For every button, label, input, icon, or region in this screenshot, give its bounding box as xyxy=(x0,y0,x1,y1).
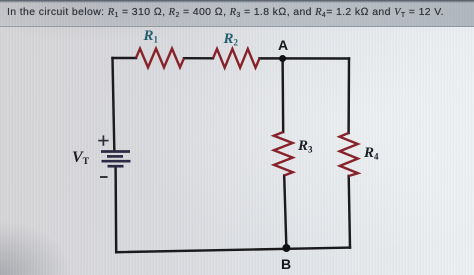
resistor R1 xyxy=(136,49,184,68)
node label B xyxy=(281,256,291,272)
wire middle branch: R3 down to node B xyxy=(284,176,286,249)
label R4 xyxy=(364,145,379,162)
label VT xyxy=(72,149,89,167)
problem statement text xyxy=(7,6,444,19)
battery plus sign xyxy=(98,135,108,145)
wire left side: top corner down to battery top xyxy=(113,58,115,150)
wire bottom horizontal xyxy=(116,248,350,253)
wire right side: R4 down to bottom corner xyxy=(349,176,350,248)
wire R2 to node A to top-right corner xyxy=(260,57,350,60)
battery VT plates xyxy=(101,152,131,167)
wire left side: battery bottom down to bottom corner xyxy=(114,168,117,253)
label R2 xyxy=(224,31,239,48)
battery minus sign xyxy=(100,176,108,178)
label R1 xyxy=(144,28,159,45)
wire right side: top corner down to R4 xyxy=(347,59,350,134)
wire top-left horizontal xyxy=(113,57,137,59)
wire between R1 and R2 xyxy=(184,57,213,60)
node B junction dot xyxy=(282,244,290,252)
label R3 xyxy=(298,138,313,155)
wire middle branch: node A down to R3 xyxy=(281,59,284,133)
resistor R2 xyxy=(213,49,260,68)
node A junction dot xyxy=(279,55,286,62)
resistor R4 xyxy=(340,133,358,176)
node label A xyxy=(278,37,288,53)
resistor R3 xyxy=(274,132,293,176)
